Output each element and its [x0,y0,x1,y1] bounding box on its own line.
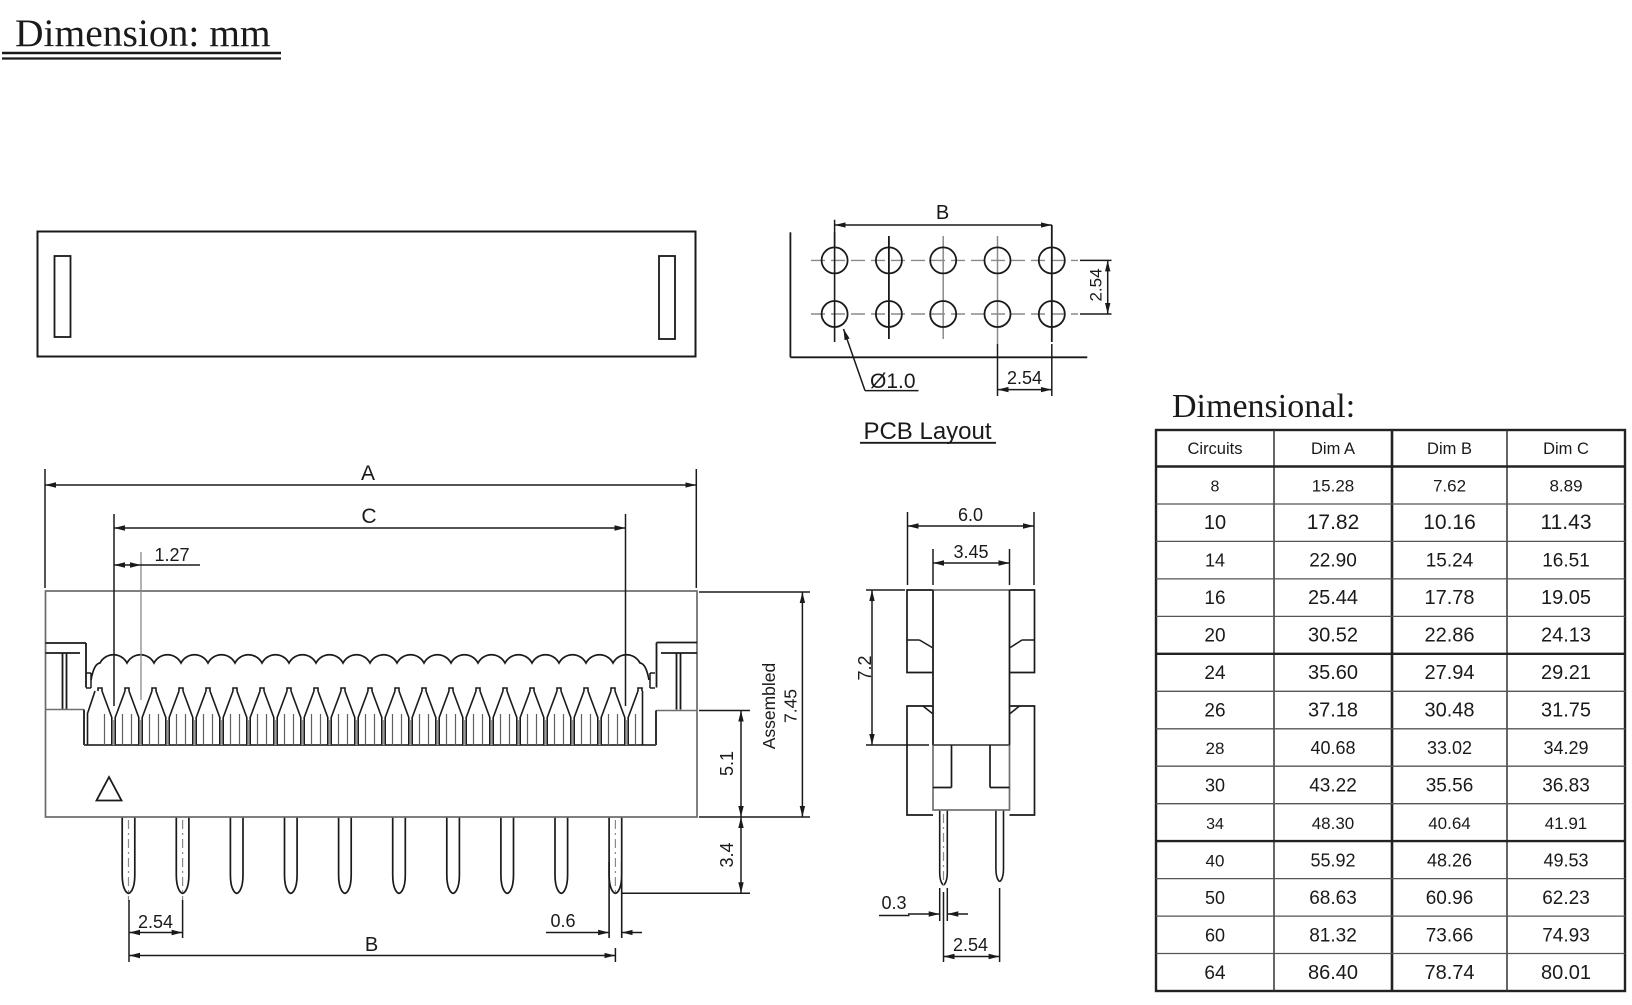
svg-text:24.13: 24.13 [1541,625,1591,647]
side view: front pin [940,811,948,885]
svg-text:8: 8 [1211,479,1220,496]
PCB layout: dimension 2.54 row pitch (right) [1080,259,1112,261]
svg-text:B: B [936,202,949,224]
front view: connector body outline [46,591,698,817]
table: header separator [1156,465,1625,467]
svg-text:27.94: 27.94 [1424,662,1474,684]
svg-text:36.83: 36.83 [1542,775,1590,796]
svg-text:2.54: 2.54 [1007,368,1042,388]
svg-text:22.90: 22.90 [1309,551,1357,572]
top view: right polarizing slot [659,256,675,339]
front view: dimension Assembled 7.45 (overall height) [699,591,810,593]
svg-text:14: 14 [1205,551,1225,571]
svg-text:2.54: 2.54 [953,935,988,955]
table: column separators [1273,430,1275,991]
PCB layout: board edge (left + bottom) [789,232,791,357]
front view: left inner ledge [46,709,85,711]
svg-text:30.48: 30.48 [1424,700,1474,722]
PCB layout: column 4 vertical centerline [997,236,999,344]
svg-text:C: C [361,505,376,528]
svg-text:0.6: 0.6 [550,911,575,931]
svg-text:7.45: 7.45 [781,689,801,723]
svg-text:Dimension: mm: Dimension: mm [15,11,271,55]
svg-text:15.24: 15.24 [1426,551,1474,572]
svg-text:20: 20 [1204,626,1225,647]
svg-text:50: 50 [1205,888,1225,908]
svg-text:10.16: 10.16 [1423,511,1476,534]
svg-text:3.45: 3.45 [953,542,988,562]
svg-text:16.51: 16.51 [1542,551,1590,572]
front view: contact slot side walls [105,714,636,745]
svg-text:2.54: 2.54 [1087,268,1106,301]
svg-text:8.89: 8.89 [1549,477,1582,496]
side view: dimension 7.2 (body height) [866,589,905,591]
PCB layout: column 3 vertical centerline [942,236,944,339]
side view: pin centerline [943,814,945,890]
front view: dimension 5.1 (body below ledge) [699,710,750,712]
svg-text:10: 10 [1204,512,1226,534]
front view: left latch bracket [46,642,87,644]
front view: right latch bracket [657,642,698,644]
PCB layout: hole grid (10 holes Ø1.0) [822,247,1065,327]
side view: left pin slot notch [951,745,953,788]
front view: contact stems below slots [114,720,627,745]
side view: rear pin [996,811,1004,882]
svg-text:26: 26 [1204,701,1225,722]
table: data rows [1204,477,1592,984]
front view: dimension C (contact span) [113,514,115,706]
front view: cavity floor line [84,744,656,746]
front view: dimension 2.54 (pin pitch) [128,900,130,962]
svg-text:64: 64 [1204,963,1226,984]
svg-text:74.93: 74.93 [1542,925,1590,946]
front view: IDC contact teeth row [88,688,643,745]
side view: center column body [933,590,1010,810]
side view: dimension 3.45 (center column depth) [932,549,934,585]
front view: dimension 1.27 (contact pitch) [140,552,142,700]
PCB layout: row 2 horizontal centerline [811,313,1078,315]
front view: 10 solder pins [122,818,621,894]
table: row separators [1156,653,1625,655]
svg-text:5.1: 5.1 [717,751,737,776]
front view: right inner ledge [656,710,697,712]
svg-text:Dimensional:: Dimensional: [1172,388,1355,425]
svg-text:Dim C: Dim C [1543,440,1589,458]
svg-text:41.91: 41.91 [1545,814,1588,833]
PCB layout: dimension 2.54 column pitch (bottom) [997,344,999,396]
svg-text:17.78: 17.78 [1424,587,1474,609]
side view: dimension 2.54 (pin row pitch) [943,892,945,962]
svg-text:22.86: 22.86 [1424,625,1474,647]
PCB layout: column 1 vertical centerline [834,232,836,342]
svg-text:30.52: 30.52 [1308,625,1358,647]
table: outer border [1156,430,1625,991]
svg-text:40.64: 40.64 [1428,814,1471,833]
svg-text:40.68: 40.68 [1310,738,1355,758]
svg-text:55.92: 55.92 [1310,850,1355,870]
svg-text:40: 40 [1206,851,1225,870]
side view: right pin slot notch [989,745,991,788]
side view: center column step line [933,744,1010,746]
svg-text:35.56: 35.56 [1426,775,1474,796]
front view: dimension 0.6 (pin width) [608,862,610,938]
svg-text:B: B [365,934,378,956]
side view: upper right ear [1010,590,1035,673]
svg-text:16: 16 [1204,588,1225,609]
svg-text:7.2: 7.2 [855,655,875,680]
svg-text:35.60: 35.60 [1308,662,1358,684]
top view: left polarizing slot [55,256,71,337]
svg-text:A: A [361,462,375,485]
PCB layout: hole diameter callout Ø1.0 with leader arrow [844,329,866,391]
svg-text:49.53: 49.53 [1543,850,1588,870]
side view: upper left ear [907,590,933,673]
svg-text:31.75: 31.75 [1541,700,1591,722]
svg-text:19.05: 19.05 [1541,587,1591,609]
side view: dimension 6.0 (overall depth) [907,512,909,585]
side view: lower left ear [907,706,933,815]
svg-text:60.96: 60.96 [1426,888,1474,909]
svg-text:0.3: 0.3 [881,893,906,913]
svg-text:24: 24 [1204,663,1226,684]
front view: dimension A (overall width) [44,469,46,588]
svg-text:43.22: 43.22 [1309,775,1357,796]
svg-text:48.30: 48.30 [1312,814,1355,833]
front view: polarity triangle mark [97,777,122,801]
svg-text:48.26: 48.26 [1427,850,1472,870]
PCB layout: column 5 vertical centerline [1051,225,1053,342]
svg-text:3.4: 3.4 [717,842,737,867]
front view: ribbon cable scalloped top edge [91,655,649,680]
svg-text:17.82: 17.82 [1307,511,1360,534]
svg-text:68.63: 68.63 [1309,888,1357,909]
svg-text:15.28: 15.28 [1312,477,1355,496]
svg-text:30: 30 [1205,775,1225,795]
front view: pin centerlines (pins 1-2, 10) [128,820,130,901]
svg-text:11.43: 11.43 [1541,511,1592,534]
svg-text:34: 34 [1206,816,1224,833]
front view: dimension B (pin row span) [614,948,616,962]
svg-text:Dim B: Dim B [1427,440,1472,458]
svg-text:33.02: 33.02 [1427,738,1472,758]
PCB layout: dimension B (hole span) [834,220,836,246]
side view: dimension 0.3 (pin thickness) [939,888,941,921]
front view: left cable-end notch [86,672,91,674]
svg-text:60: 60 [1205,925,1225,945]
svg-text:81.32: 81.32 [1309,925,1357,946]
front view: right cable-end notch [650,672,655,674]
PCB layout: row 1 horizontal centerline [811,259,1078,261]
svg-text:Assembled: Assembled [759,663,779,750]
svg-text:34.29: 34.29 [1543,738,1588,758]
svg-text:Ø1.0: Ø1.0 [870,370,916,393]
PCB layout: column 2 vertical centerline [888,236,890,339]
svg-text:6.0: 6.0 [958,505,983,525]
front view: dimension 3.4 (pin protrusion) [622,892,750,894]
svg-text:28: 28 [1206,739,1225,758]
svg-text:29.21: 29.21 [1541,662,1591,684]
svg-text:73.66: 73.66 [1426,925,1474,946]
svg-text:PCB Layout: PCB Layout [863,418,991,445]
svg-text:7.62: 7.62 [1433,477,1466,496]
svg-text:78.74: 78.74 [1424,962,1474,984]
svg-text:2.54: 2.54 [138,912,173,932]
svg-text:Circuits: Circuits [1187,440,1242,458]
svg-text:37.18: 37.18 [1308,700,1358,722]
svg-text:Dim A: Dim A [1311,440,1355,458]
svg-text:25.44: 25.44 [1308,587,1358,609]
svg-text:62.23: 62.23 [1542,888,1590,909]
table: header row text [1187,440,1589,458]
svg-text:1.27: 1.27 [154,545,189,565]
top view: connector body outline [38,232,696,357]
side view: lower right ear [1010,706,1035,815]
svg-text:80.01: 80.01 [1541,962,1591,984]
svg-text:86.40: 86.40 [1308,962,1358,984]
